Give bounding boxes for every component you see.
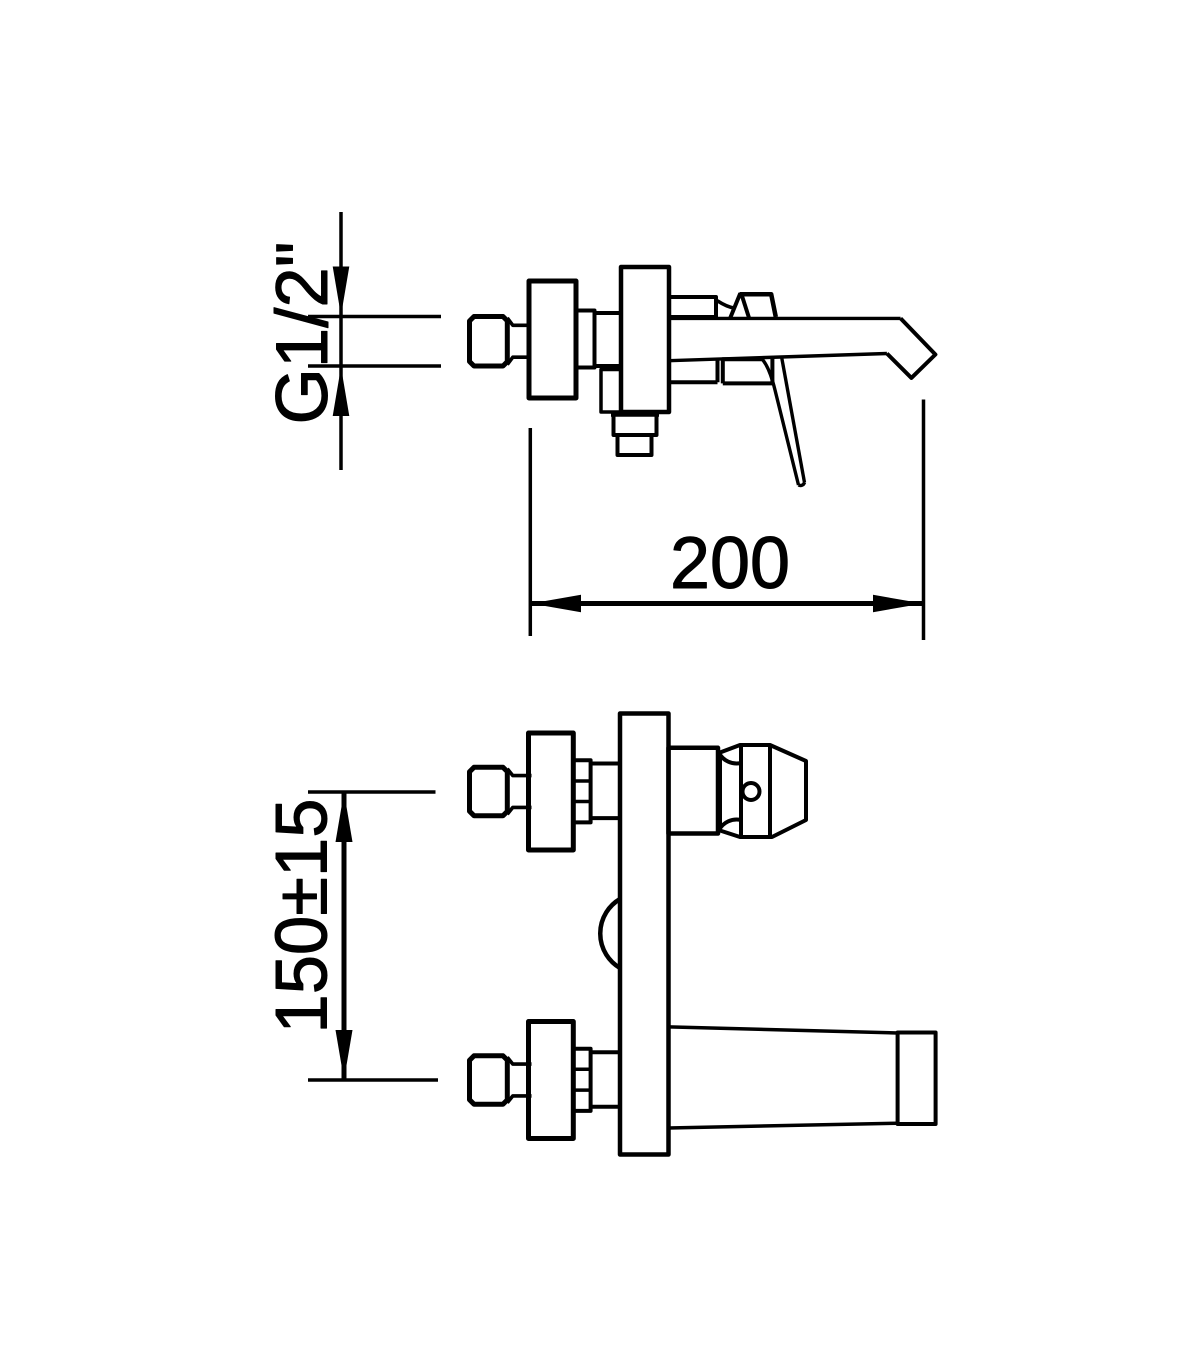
svg-text:G1/2": G1/2" [262,242,343,425]
svg-text:200: 200 [670,523,790,604]
svg-text:150±15: 150±15 [262,799,343,1034]
